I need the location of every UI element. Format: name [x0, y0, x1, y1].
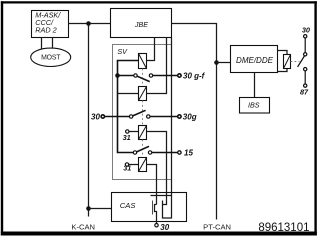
svg-text:30 g-f: 30 g-f	[183, 71, 206, 80]
wire DME to IBS	[254, 73, 256, 98]
relay coil K1	[139, 54, 147, 69]
wire to CAS	[89, 208, 112, 210]
wire 31 to K3	[129, 131, 139, 133]
wire K-CAN vertical	[88, 24, 90, 217]
box IBS	[240, 98, 270, 114]
svg-text:30g: 30g	[183, 113, 197, 122]
wire JBE drop to relay K2	[147, 38, 167, 94]
box M-ASK/CCC/RAD2	[32, 10, 69, 37]
wire M-ASK to MOST left	[41, 38, 43, 50]
wire bus to coil K2	[118, 93, 139, 95]
wire JBE to PT-CAN	[172, 24, 217, 220]
relay coil K2	[139, 87, 147, 101]
node bus s1	[115, 73, 120, 78]
terminal 31 (K3)	[126, 130, 129, 133]
bus vertical	[118, 61, 139, 153]
wire M-ASK to MOST right	[52, 38, 54, 49]
mech link K2-s2-K3	[142, 101, 144, 126]
wire M-ASK to JBE	[69, 23, 111, 25]
terminal 30 left	[101, 115, 104, 118]
relay coil K4	[139, 158, 147, 172]
node PT-CAN junction	[214, 60, 219, 65]
wire 31 to K4	[129, 164, 139, 166]
svg-text:IBS: IBS	[248, 101, 260, 110]
node CAS junction	[86, 206, 91, 211]
svg-text:SV: SV	[117, 47, 128, 56]
ignition lock socket	[151, 196, 172, 219]
switch s3	[133, 146, 177, 154]
svg-text:RAD 2: RAD 2	[35, 26, 57, 35]
svg-text:87: 87	[300, 88, 309, 97]
svg-text:CAS: CAS	[120, 201, 136, 210]
svg-text:DME/DDE: DME/DDE	[236, 56, 274, 65]
terminal 31 (K4)	[125, 163, 128, 166]
box CAS	[112, 193, 187, 222]
ignition lock inner wall	[152, 201, 154, 215]
mech link dashed (DME relay)	[291, 61, 300, 63]
svg-text:31: 31	[123, 133, 131, 142]
wire to DME	[217, 62, 231, 64]
switch s1	[118, 74, 178, 82]
svg-text:30: 30	[302, 25, 310, 34]
wire K3 to CAS	[147, 132, 167, 205]
svg-text:15: 15	[184, 148, 193, 157]
svg-text:30: 30	[91, 113, 100, 122]
terminal 30 g-f	[178, 74, 181, 77]
wire JBE drop to relay K1	[147, 38, 155, 61]
box DME/DDE	[231, 46, 278, 73]
box SV	[113, 45, 172, 180]
mech link K3-s3-K4	[142, 140, 144, 158]
svg-text:JBE: JBE	[134, 20, 148, 29]
relay contact switch (right)	[298, 35, 307, 88]
node K-CAN junction	[86, 21, 91, 26]
relay coil K5 (DME)	[284, 55, 291, 69]
relay coil K5 wires	[278, 51, 288, 55]
svg-text:PT-CAN: PT-CAN	[203, 222, 231, 231]
relay coil K3	[139, 126, 147, 140]
terminal 30g	[178, 115, 181, 118]
MOST ellipse	[31, 48, 71, 66]
svg-text:MOST: MOST	[41, 55, 61, 62]
svg-text:89613101: 89613101	[258, 222, 309, 234]
terminal 30 (CAS)	[155, 224, 158, 227]
svg-text:30: 30	[160, 223, 169, 232]
wire JBE drop to CAS socket	[171, 38, 173, 196]
wire K4 to CAS key	[147, 165, 157, 205]
terminal 15	[178, 151, 181, 154]
svg-text:K-CAN: K-CAN	[71, 222, 95, 231]
mech link K1-s1-K2	[142, 69, 144, 87]
ignition key	[155, 205, 157, 224]
box JBE	[111, 9, 172, 38]
switch s2	[105, 110, 178, 118]
